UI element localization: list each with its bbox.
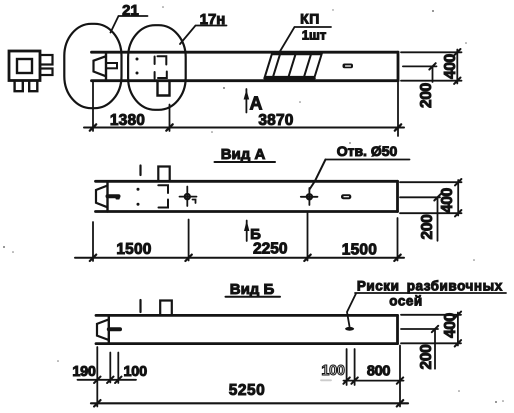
mark 100 <box>117 353 119 384</box>
hole 1 (view A) <box>180 187 197 207</box>
beam right edge (plan) <box>397 52 400 80</box>
dim text 1500 left <box>116 241 151 258</box>
ext 800 right / 5250 right <box>399 346 401 407</box>
beam top edge (plan) <box>92 51 399 54</box>
KP text <box>300 11 320 27</box>
hole 2 (view A) <box>301 188 318 205</box>
ticks 400 (plan) <box>454 49 460 84</box>
mesh divider 2 <box>289 54 296 77</box>
dim text 200 (plan, rotated) <box>418 83 435 108</box>
beam bottom edge (view A) <box>96 210 398 213</box>
svg-text:3870: 3870 <box>258 112 293 129</box>
tick plan mid <box>166 124 172 130</box>
cross-section icon bottom leg left <box>15 81 23 91</box>
header Vid A underline <box>215 161 276 163</box>
cross-section icon inner square <box>17 59 32 73</box>
mark 800 left <box>346 349 348 385</box>
svg-text:Вид Б: Вид Б <box>230 281 275 298</box>
hidden bracket dashed (plan) <box>155 56 167 78</box>
extension line right (plan dim) <box>397 83 399 137</box>
beam top edge (view B) <box>96 314 398 317</box>
svg-text:А: А <box>250 94 263 114</box>
tick 200 (view A) <box>434 194 440 200</box>
dim text 1380 <box>110 112 145 129</box>
right ext bottom (view A) <box>400 212 462 214</box>
dim line 400 (plan) <box>456 50 458 84</box>
ticks 800 <box>343 377 403 383</box>
svg-text:400: 400 <box>442 54 459 79</box>
label Otv underline <box>326 159 410 161</box>
svg-text:17н: 17н <box>200 11 226 28</box>
tick plan right <box>395 124 401 130</box>
svg-text:осей: осей <box>389 294 422 309</box>
beam body left edge (view B) <box>108 315 110 343</box>
mesh plate bottom thick line <box>265 77 315 79</box>
svg-text:Отв. Ø50: Отв. Ø50 <box>337 143 398 159</box>
tapered tip (view A) <box>96 186 108 208</box>
view arrow A <box>244 89 250 113</box>
dim line 190-100 <box>78 379 137 381</box>
ticks view A <box>90 255 401 261</box>
dim text 200 (view A, rotated) <box>419 215 436 240</box>
right ext top (view B) <box>401 314 461 316</box>
KP leader <box>279 27 331 53</box>
svg-text:200: 200 <box>418 345 435 370</box>
label 21 text <box>122 2 139 19</box>
svg-text:5250: 5250 <box>229 382 265 399</box>
lifting lug (view B) <box>160 301 172 316</box>
svg-text:1500: 1500 <box>116 241 151 258</box>
header Vid A <box>221 146 266 163</box>
extension line left (plan dim) <box>92 82 94 131</box>
dimension line view A <box>75 257 404 259</box>
ext 2250 (view A dim) <box>307 213 309 261</box>
mark above beam (view B) <box>139 300 141 312</box>
right ext bottom (view B) <box>401 342 461 344</box>
label 17n leader <box>180 26 227 45</box>
dim text 190 <box>72 364 96 380</box>
mark 800 right <box>354 349 356 385</box>
beam body left edge (plan) <box>105 52 107 80</box>
ext 1500 (view A dim) <box>188 220 190 261</box>
ticks 400 (view B) <box>455 312 461 347</box>
mark 190 <box>109 353 111 383</box>
view arrow A letter <box>250 94 263 114</box>
svg-text:400: 400 <box>442 313 459 338</box>
dim text 800 <box>367 364 391 380</box>
svg-text:100: 100 <box>321 363 345 379</box>
ticks 190-100 <box>94 377 121 383</box>
svg-text:400: 400 <box>439 188 456 213</box>
tapered tip (plan) <box>94 56 107 76</box>
beam right edge (view A) <box>396 181 399 211</box>
svg-text:21: 21 <box>122 2 139 19</box>
ticks 5250 <box>94 400 403 406</box>
svg-text:1380: 1380 <box>110 112 145 129</box>
mesh divider 1 <box>273 54 280 77</box>
svg-text:2250: 2250 <box>253 241 287 258</box>
svg-text:200: 200 <box>419 215 436 240</box>
beam bottom edge (plan) <box>92 79 399 82</box>
balloon ellipse 21 <box>64 24 121 108</box>
svg-text:200: 200 <box>418 83 435 108</box>
label 17n text <box>200 11 226 28</box>
tip tab (view A) <box>108 196 119 198</box>
dim text 2250 <box>253 241 287 258</box>
label Otv leader <box>309 160 325 190</box>
right ext bottom (plan) <box>401 80 462 82</box>
right ext top (plan) <box>401 51 462 53</box>
dim line 5250 <box>91 402 408 404</box>
right ext mid (view B) <box>401 328 438 330</box>
tapered tip (view B) <box>97 319 109 340</box>
ext right (view A dim) <box>397 218 399 261</box>
dim text 3870 <box>258 112 293 129</box>
label 21 leader <box>111 16 148 33</box>
right ext mid (plan) <box>403 65 437 67</box>
svg-text:800: 800 <box>367 364 391 380</box>
mesh plate parallelogram <box>265 54 322 77</box>
dim line 800 <box>344 380 404 382</box>
riska mark on beam <box>345 327 354 331</box>
ticks 400 (view A) <box>455 179 461 216</box>
ext left (view A dim) <box>92 222 94 261</box>
label riski leader <box>347 294 356 327</box>
dim line 200 (plan) <box>432 66 434 82</box>
svg-text:Вид А: Вид А <box>221 146 266 163</box>
dim line 200 (view A) <box>437 197 439 241</box>
dim text 1500 right <box>342 242 377 259</box>
svg-text:Риски разбивочных: Риски разбивочных <box>357 279 503 294</box>
tip tab (view B) <box>109 327 120 331</box>
dim text 100 <box>124 364 148 380</box>
tick 200 (view B) <box>432 326 438 332</box>
cross-section icon outer square <box>9 51 40 81</box>
svg-text:1500: 1500 <box>342 242 377 259</box>
header Vid B underline <box>226 296 281 298</box>
hidden bracket dashed (view A) <box>158 185 168 207</box>
right ext top (view A) <box>400 181 462 183</box>
label Otv D50 <box>337 143 398 159</box>
svg-text:1шт: 1шт <box>302 28 326 43</box>
dim text 200 (view B, rotated) <box>418 345 435 370</box>
mesh divider 3 <box>304 54 311 77</box>
faint erased 100 <box>321 363 345 379</box>
extension line 1380 (plan dim) <box>169 105 171 132</box>
mark above beam (view A) <box>139 166 141 176</box>
dim line 200 (view B) <box>434 329 436 369</box>
svg-text:100: 100 <box>124 364 148 380</box>
svg-text:190: 190 <box>72 364 96 380</box>
cross-section icon bottom leg right <box>29 81 37 91</box>
beam body left edge (view A) <box>106 181 108 211</box>
right ext mid (view A) <box>400 196 440 198</box>
slot hole (plan) <box>343 64 354 69</box>
balloon ellipse 17n <box>128 25 186 110</box>
view arrow B letter <box>250 226 261 243</box>
cross-section icon right tab upper <box>40 55 53 65</box>
dim text 400 (view B, rotated) <box>442 313 459 338</box>
ext 5250 left <box>96 347 98 407</box>
hidden dots (plan) <box>136 58 139 75</box>
header Vid B <box>230 281 275 298</box>
view arrow B <box>244 221 249 242</box>
tick plan left <box>90 124 96 130</box>
label riski text line2 <box>389 294 422 309</box>
label riski text line1 <box>357 279 503 294</box>
hidden dots (view A) <box>137 188 140 206</box>
svg-text:КП: КП <box>300 11 320 27</box>
beam bottom edge (view B) <box>96 342 398 345</box>
dim line 400 (view B) <box>457 313 459 346</box>
slot hole (view A) <box>341 194 351 199</box>
dim text 400 (view A, rotated) <box>439 188 456 213</box>
dim text 400 (plan, rotated) <box>442 54 459 79</box>
tick 200 (plan) <box>429 63 435 69</box>
dim line 400 (view A) <box>457 180 459 216</box>
label riski underline <box>355 292 506 294</box>
beam top edge (view A) <box>96 180 398 183</box>
faint dim dash <box>321 379 331 381</box>
beam right edge (view B) <box>396 315 399 343</box>
bottom lug seen in plan <box>158 81 170 96</box>
cross-section icon right tab lower <box>40 69 53 76</box>
dimension line plan <box>84 127 404 129</box>
tip tab (plan) <box>106 63 117 68</box>
dim text 5250 <box>229 382 265 399</box>
1sht text <box>302 28 326 43</box>
lifting lug (view A) <box>158 167 169 182</box>
